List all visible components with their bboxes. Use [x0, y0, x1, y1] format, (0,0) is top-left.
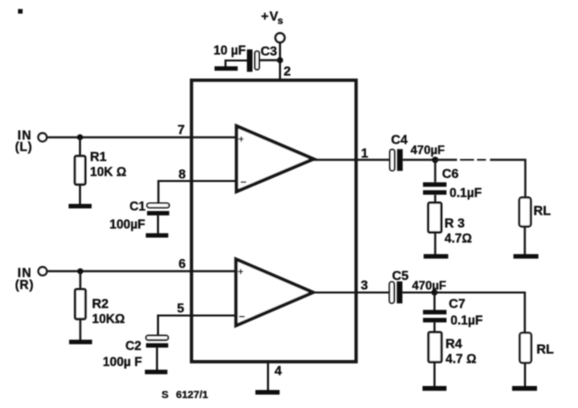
wire junction to R1 — [79, 137, 81, 156]
R2 ref label — [92, 296, 109, 311]
wire junction to C7 — [433, 293, 435, 311]
svg-text:C3: C3 — [261, 44, 278, 59]
op-amp U1b plus input mark — [238, 266, 243, 276]
node +Vs label — [261, 9, 284, 28]
C7 value label — [451, 314, 484, 328]
svg-text:C2: C2 — [125, 339, 141, 353]
wire IN R to pin 6 / op-amp2 + — [47, 270, 236, 272]
svg-text:10KΩ: 10KΩ — [92, 312, 125, 326]
svg-text:6: 6 — [179, 256, 186, 271]
svg-text:4.7 Ω: 4.7 Ω — [446, 352, 477, 366]
wire junction to RL1 (partly dashed in scan) — [435, 160, 525, 198]
ground bar for R4 — [423, 386, 447, 391]
C3 value label 10uF — [214, 43, 247, 57]
C5 ref label — [392, 268, 409, 283]
node junction R1 — [77, 134, 83, 140]
capacitor C1 — [147, 203, 169, 215]
C1 value label — [110, 218, 146, 232]
op-amp U1b minus input mark — [239, 312, 245, 323]
ground bar for RL1 — [513, 254, 538, 259]
RL ref label — [534, 203, 551, 218]
resistor R2 — [75, 289, 85, 319]
node +Vs terminal — [275, 33, 284, 42]
pin 3 label — [361, 278, 368, 293]
pin 1 label — [361, 145, 368, 160]
R4 value label — [446, 352, 477, 366]
svg-text:C1: C1 — [130, 199, 146, 213]
svg-text:4: 4 — [275, 363, 283, 378]
R1 ref label — [90, 149, 107, 164]
C7 ref label — [449, 296, 466, 311]
capacitor C6 — [423, 182, 447, 194]
C6 value label — [450, 186, 483, 200]
svg-text:5: 5 — [177, 300, 184, 315]
ground bar for pin 4 — [255, 390, 279, 395]
C4 ref label — [391, 132, 408, 147]
C6 ref label — [442, 166, 459, 181]
op-amp U1b — [236, 259, 313, 325]
svg-text:470µF: 470µF — [412, 278, 446, 292]
svg-text:100µF: 100µF — [110, 218, 146, 232]
pin 6 label — [179, 256, 186, 271]
wire C4 to junction — [403, 159, 436, 161]
resistor RL (right channel load) — [520, 333, 531, 363]
op-amp U1a — [237, 126, 314, 192]
C2 value label — [103, 355, 143, 369]
svg-text:10K Ω: 10K Ω — [90, 165, 126, 179]
ground bar for C3 — [215, 66, 238, 70]
svg-text:0.1µF: 0.1µF — [450, 186, 483, 200]
RL2 ref label — [537, 342, 554, 357]
wire RL2 to ground — [524, 363, 526, 387]
input IN (R) label — [15, 266, 34, 292]
wire IN L to pin 7 / op-amp + — [47, 136, 237, 138]
wire pin 5 to op-amp2 minus and down to C2 — [158, 316, 236, 336]
node junction pin2/C3 — [277, 57, 283, 63]
wire C3 left plate to ground — [226, 61, 248, 68]
pin 7 label — [178, 122, 185, 137]
C5 value label — [412, 278, 446, 292]
svg-text:R1: R1 — [90, 149, 107, 164]
svg-text:(L): (L) — [15, 140, 32, 154]
svg-text:+: + — [261, 9, 269, 24]
svg-text:10 µF: 10 µF — [214, 43, 247, 57]
resistor R3 — [428, 203, 441, 233]
pin 5 label — [177, 300, 184, 315]
input terminal L — [38, 133, 46, 141]
capacitor C7 — [423, 310, 447, 323]
svg-text:RL: RL — [537, 342, 554, 357]
svg-text:R 3: R 3 — [445, 216, 465, 231]
ground bar for C2 — [145, 370, 168, 375]
svg-text:1: 1 — [361, 145, 368, 160]
wire RL to ground — [524, 227, 526, 255]
svg-text:−: − — [241, 178, 247, 189]
decorative dot intentionally drawn: page mark — [18, 9, 23, 14]
C1 ref label — [130, 199, 146, 213]
wire C3 right plate to pin2 junction — [259, 59, 281, 61]
pin 2 label — [284, 64, 291, 79]
svg-text:8: 8 — [179, 166, 186, 181]
wire junction to RL2 — [435, 293, 525, 333]
svg-text:C5: C5 — [392, 268, 409, 283]
resistor R4 — [429, 332, 442, 362]
wire R2 to ground — [79, 319, 81, 340]
svg-text:S: S — [162, 389, 169, 401]
ground bar for R3 — [424, 254, 449, 259]
capacitor C2 — [146, 336, 168, 348]
wire op-amp2 output to C5 — [313, 291, 389, 293]
svg-text:R2: R2 — [92, 296, 109, 311]
svg-text:s: s — [278, 16, 284, 27]
svg-text:+: + — [238, 266, 243, 276]
wire C2 to ground — [156, 348, 158, 371]
op-amp U1a plus input mark — [239, 134, 244, 144]
svg-text:(R): (R) — [15, 278, 34, 292]
svg-text:C7: C7 — [449, 296, 466, 311]
C2 ref label — [125, 339, 141, 353]
ground bar for C1 — [146, 233, 169, 237]
svg-text:6127/1: 6127/1 — [176, 389, 208, 401]
pin 4 label — [275, 363, 283, 378]
op-amp U1a minus input mark — [241, 178, 247, 189]
wire C1 to ground — [157, 215, 159, 233]
svg-text:C4: C4 — [391, 132, 408, 147]
wire C5 to junction — [402, 291, 434, 293]
wire C6 to R3 — [434, 195, 436, 203]
wire C7 to R4 — [433, 322, 435, 332]
wire junction to C6 — [434, 160, 436, 183]
svg-text:3: 3 — [361, 278, 368, 293]
wire pin 8 to op-amp minus and down to C1 — [158, 181, 236, 203]
svg-text:2: 2 — [284, 64, 291, 79]
svg-text:−: − — [239, 312, 245, 323]
op-amp IC package box — [192, 80, 357, 362]
wire junction to R2 — [79, 271, 81, 289]
svg-text:0.1µF: 0.1µF — [451, 314, 484, 328]
svg-text:C6: C6 — [442, 166, 459, 181]
input terminal R — [38, 267, 46, 275]
R4 ref label — [446, 336, 463, 351]
svg-text:7: 7 — [178, 122, 185, 137]
wire R1 to ground — [79, 185, 81, 205]
wire Vs terminal to box pin 2 — [279, 42, 281, 80]
input IN (L) label — [15, 128, 32, 154]
C3 ref label — [261, 44, 278, 59]
svg-text:R4: R4 — [446, 336, 463, 351]
R1 value label — [90, 165, 126, 179]
ground bar for RL2 — [512, 386, 537, 391]
pin 8 label — [179, 166, 186, 181]
node junction R2 — [77, 268, 83, 274]
drawing number label S 6127/1 — [162, 389, 209, 401]
wire R4 to ground — [433, 362, 435, 386]
capacitor C3 — [247, 49, 259, 71]
capacitor C4 — [390, 149, 403, 171]
svg-text:RL: RL — [534, 203, 551, 218]
R2 value label — [92, 312, 125, 326]
wire op-amp1 output to C4 — [314, 159, 390, 161]
resistor RL (left channel load) — [519, 198, 531, 227]
svg-text:100µ F: 100µ F — [103, 355, 143, 369]
resistor R1 — [75, 156, 85, 185]
svg-text:4.7Ω: 4.7Ω — [445, 232, 472, 246]
C4 value label — [411, 143, 445, 157]
R3 value label — [445, 232, 472, 246]
node junction out1 — [432, 157, 438, 163]
svg-text:470µF: 470µF — [411, 143, 445, 157]
svg-text:+: + — [239, 134, 244, 144]
ground bar for R2 — [69, 340, 92, 345]
ground bar for R1 — [69, 204, 92, 209]
node junction out2 — [431, 289, 437, 295]
R3 ref label — [445, 216, 465, 231]
wire R3 to ground — [434, 232, 436, 254]
wire pin 4 to ground — [267, 362, 269, 390]
capacitor C5 — [389, 281, 402, 303]
